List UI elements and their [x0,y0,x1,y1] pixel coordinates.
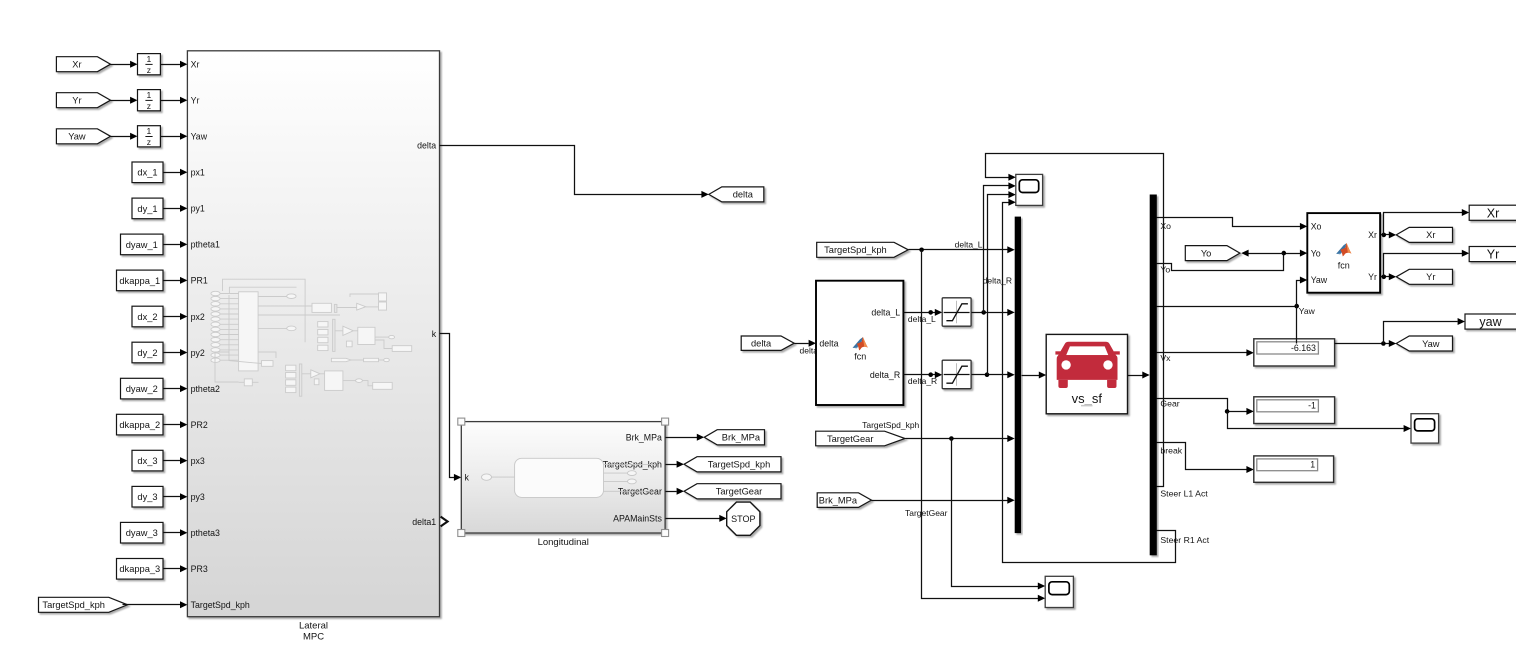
svg-text:Xo: Xo [1311,222,1322,232]
svg-text:-1: -1 [1308,401,1316,411]
svg-text:delta: delta [733,190,754,200]
svg-text:1: 1 [147,126,152,136]
wire [972,371,1015,378]
constant dkappa_2 [117,414,164,435]
outport delta [709,187,764,202]
constant dx_2 [132,306,163,327]
wire (delta) [440,146,709,198]
signal label delta_R [983,276,1012,286]
wire (TargetGear down to scope2) [952,439,1046,590]
output port delta1 (unconnected) [441,517,448,527]
wire [111,133,138,140]
wire (break) [1157,443,1254,474]
svg-text:TargetSpd_kph: TargetSpd_kph [708,460,771,470]
svg-text:delta_R: delta_R [870,370,900,380]
constant dy_1 [132,198,163,219]
svg-text:Yo: Yo [1160,264,1170,274]
constant dkappa_3 [117,559,164,580]
wire (TargetSpd_kph down to scope2) [922,250,1046,602]
outport yaw (edge) [1465,314,1516,329]
selection handles (Longitudinal) [458,418,669,536]
display (1) [1254,456,1334,482]
svg-text:Xr: Xr [72,60,81,70]
outport Brk_MPa [704,430,764,445]
wire [164,349,188,356]
inport TargetSpd_kph (right) [817,242,909,257]
wire (Steer R1 Act feedback to scope input 4) [1003,199,1176,563]
svg-text:Yr: Yr [191,96,200,106]
inport Yr [56,93,110,108]
wire [1128,372,1150,379]
demux [1150,195,1157,556]
svg-text:ptheta1: ptheta1 [191,240,220,250]
svg-text:TargetGear: TargetGear [905,508,948,518]
wire (Yr to edge port) [1384,250,1470,277]
svg-text:z: z [147,137,151,147]
wire [972,309,1015,316]
svg-text:TargetSpd_kph: TargetSpd_kph [191,600,250,610]
wire [1022,372,1047,379]
wire (Xr to edge port) [1384,209,1470,235]
wire [872,497,1015,504]
MATLAB function block fcn (U2) [1307,213,1380,293]
inport TargetGear [816,431,905,446]
signal label TargetGear [905,508,948,518]
svg-text:Brk_MPa: Brk_MPa [722,433,761,443]
constant dy_2 [132,342,163,363]
svg-text:px1: px1 [191,168,205,178]
svg-text:MPC: MPC [303,632,324,643]
svg-text:px3: px3 [191,456,205,466]
svg-text:z: z [147,101,151,111]
inport TargetSpd_kph [39,597,128,612]
outport Yr [1396,269,1452,284]
mux [1015,217,1021,533]
wire (Yr) [1381,273,1397,280]
outport Yo (flipped) [1185,246,1240,261]
constant dx_3 [132,450,163,471]
svg-text:TargetSpd_kph: TargetSpd_kph [824,245,887,255]
svg-text:Steer R1 Act: Steer R1 Act [1160,535,1209,545]
outport Xr (edge) [1469,205,1516,220]
svg-text:k: k [432,329,437,339]
wire (Xo) [1157,218,1308,230]
unit delay 1/z (Yaw) [138,126,161,147]
svg-text:Yaw: Yaw [1422,339,1440,349]
svg-text:ptheta2: ptheta2 [191,384,220,394]
wire (delta_L) [904,309,943,316]
svg-text:APAMainSts: APAMainSts [613,514,662,524]
svg-text:dyaw_3: dyaw_3 [126,528,158,538]
svg-text:Yr: Yr [1368,272,1377,282]
svg-text:Yr: Yr [72,96,81,106]
wire [164,385,188,392]
signal label delta [800,346,819,356]
svg-text:PR2: PR2 [191,420,208,430]
svg-text:delta1: delta1 [412,517,436,527]
subsystem preview contents (Longitudinal) [482,458,656,497]
wire (Gear to scope) [1228,412,1412,433]
wire (Yo to flipped outport) [1241,250,1283,257]
scope (top, 4 inputs) [1016,174,1043,205]
wire [164,169,188,176]
svg-text:-6.163: -6.163 [1291,343,1316,353]
wire [161,61,188,68]
inport Yaw [56,129,110,144]
svg-text:dkappa_3: dkappa_3 [119,564,160,574]
svg-text:TargetSpd_kph: TargetSpd_kph [862,420,919,430]
wire [666,461,685,468]
svg-text:Yo: Yo [1201,248,1212,258]
svg-text:py3: py3 [191,492,205,502]
wire (Xr) [1381,231,1397,238]
signal label delta_L [908,314,936,324]
svg-text:Xr: Xr [1368,230,1377,240]
svg-text:py2: py2 [191,348,205,358]
svg-text:delta_L: delta_L [955,239,983,249]
svg-text:Yo: Yo [1311,248,1321,258]
wire (Yaw up to fcn) [1297,277,1308,307]
wire [906,435,1015,442]
svg-text:Xr: Xr [191,60,200,70]
display (-1) [1254,397,1335,424]
wire [164,421,188,428]
constant dyaw_2 [121,378,164,399]
svg-text:dkappa_1: dkappa_1 [119,276,160,286]
inport delta [741,336,794,350]
svg-text:ptheta3: ptheta3 [191,528,220,538]
svg-text:Xo: Xo [1160,221,1171,231]
wire [164,457,188,464]
wire [111,97,138,104]
svg-text:py1: py1 [191,204,205,214]
wire [161,97,188,104]
unit delay 1/z (Xr) [138,54,161,75]
subsystem Lateral MPC [187,51,439,643]
constant dy_3 [132,486,163,507]
wire (Gear) [1157,399,1254,415]
signal label Yaw [1299,306,1316,316]
svg-text:Yaw: Yaw [191,132,208,142]
svg-text:Vx: Vx [1160,353,1171,363]
outport Xr [1396,227,1452,242]
svg-text:TargetGear: TargetGear [716,487,763,497]
svg-text:1: 1 [147,90,152,100]
svg-text:Yr: Yr [1426,272,1435,282]
wire [164,493,188,500]
wire [161,133,188,140]
signal label delta_R [908,376,937,386]
constant dx_1 [132,162,163,183]
outport TargetGear [684,484,781,499]
wire (Yaw to outports) [1335,340,1397,347]
svg-text:Xr: Xr [1426,230,1435,240]
subsystem Longitudinal [461,422,665,548]
wire (Yaw vertical over display) [1296,307,1298,344]
svg-text:dy_3: dy_3 [137,492,157,502]
svg-text:fcn: fcn [854,351,866,361]
scope (right of displays) [1411,414,1439,443]
constant dkappa_1 [117,270,164,291]
svg-text:dx_1: dx_1 [137,168,157,178]
MATLAB function block fcn (U1) [816,281,903,405]
svg-text:delta: delta [417,140,436,150]
wire (Vx to display) [1157,349,1254,356]
svg-text:1: 1 [147,54,152,64]
svg-text:Lateral: Lateral [299,621,328,632]
outport TargetSpd_kph [684,457,781,472]
svg-text:dyaw_1: dyaw_1 [126,240,158,250]
wire [164,313,188,320]
svg-text:k: k [465,473,470,483]
svg-text:Brk_MPa: Brk_MPa [626,433,662,443]
inport Xr [56,57,110,72]
svg-text:delta: delta [751,339,772,349]
wire [111,61,138,68]
svg-text:dx_3: dx_3 [137,456,157,466]
wire [909,246,1015,253]
svg-text:px2: px2 [191,312,205,322]
wire [666,488,685,495]
svg-text:Steer L1 Act: Steer L1 Act [1160,489,1208,499]
outport Yr (edge) [1469,247,1516,262]
subsystem preview contents (Lateral MPC) [211,279,412,396]
demux output labels [1160,221,1209,545]
svg-text:yaw: yaw [1479,315,1502,329]
svg-text:Brk_MPa: Brk_MPa [819,495,858,505]
svg-text:delta_R: delta_R [983,276,1012,286]
scope (bottom, 2 inputs) [1045,576,1073,607]
svg-text:dyaw_2: dyaw_2 [126,384,158,394]
svg-text:STOP: STOP [731,514,755,524]
svg-text:fcn: fcn [1338,260,1350,270]
constant dyaw_1 [121,234,164,255]
svg-text:dy_2: dy_2 [137,348,157,358]
svg-text:Longitudinal: Longitudinal [538,537,589,548]
wire [123,601,188,608]
svg-text:dx_2: dx_2 [137,312,157,322]
wire [164,565,188,572]
inport Brk_MPa [817,493,871,508]
signal label TargetSpd_kph [862,420,919,430]
wire [164,241,188,248]
wire (delta_R) [904,371,943,378]
wire (yaw to edge port) [1384,318,1466,344]
constant dyaw_3 [121,522,164,543]
stop block STOP [727,502,760,535]
display (-6.163) [1254,339,1335,366]
svg-text:delta_L: delta_L [871,308,900,318]
svg-text:Yaw: Yaw [1311,275,1328,285]
svg-text:Yr: Yr [1487,248,1500,262]
wire [666,434,705,441]
wire [164,529,188,536]
wire (delta_R to scope) [988,191,1016,374]
svg-text:Yaw: Yaw [68,132,86,142]
wire [164,205,188,212]
svg-text:Yaw: Yaw [1299,306,1316,316]
wire [795,340,817,347]
wire (Steer L1 Act feedback to scope input 1) [986,154,1164,487]
wire (k) [440,334,462,481]
saturation block (delta_L) [942,298,971,326]
svg-text:Xr: Xr [1487,206,1500,220]
wire (delta_L to scope) [984,182,1016,312]
svg-text:1: 1 [1310,460,1315,470]
vehicle block vs_sf [1046,334,1127,413]
svg-text:delta: delta [819,338,838,348]
wire (Yo) [1157,250,1308,271]
saturation block (delta_R) [942,360,971,389]
svg-text:dy_1: dy_1 [137,204,157,214]
outport Yaw [1396,336,1452,351]
signal label delta_L [955,239,983,249]
svg-text:PR1: PR1 [191,276,208,286]
svg-text:z: z [147,65,151,75]
svg-text:PR3: PR3 [191,564,208,574]
svg-text:delta_R: delta_R [908,376,937,386]
wire [666,515,727,522]
unit delay 1/z (Yr) [138,90,161,111]
svg-text:TargetSpd_kph: TargetSpd_kph [42,600,105,610]
wire [164,277,188,284]
svg-text:vs_sf: vs_sf [1072,391,1103,406]
svg-text:TargetGear: TargetGear [827,434,874,444]
svg-text:dkappa_2: dkappa_2 [119,420,160,430]
wire (Yaw) [1157,304,1299,309]
